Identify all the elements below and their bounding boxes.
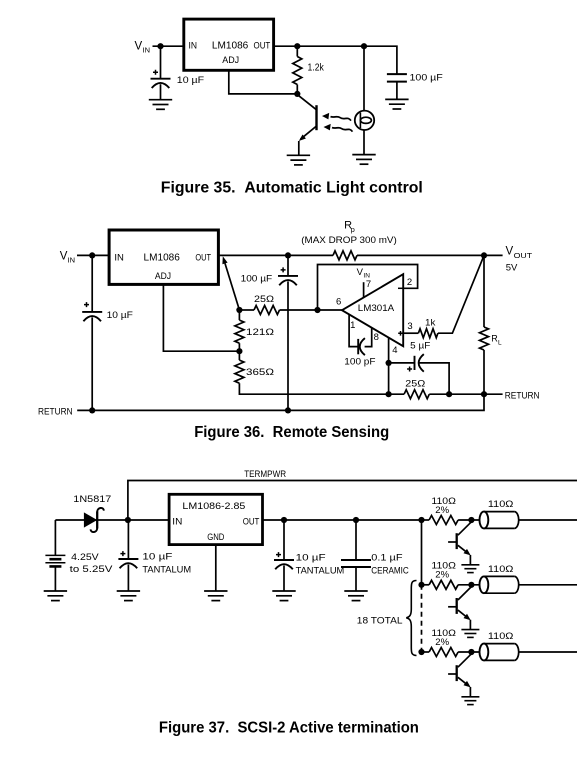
svg-text:TANTALUM: TANTALUM xyxy=(296,565,345,575)
svg-text:IN: IN xyxy=(143,46,151,55)
svg-text:OUT: OUT xyxy=(254,41,271,51)
svg-text:1: 1 xyxy=(350,320,355,331)
svg-text:7: 7 xyxy=(366,279,371,290)
svg-text:IN: IN xyxy=(68,255,76,264)
svg-text:0.1 µF: 0.1 µF xyxy=(371,553,402,564)
svg-text:(MAX DROP 300 mV): (MAX DROP 300 mV) xyxy=(301,235,397,246)
svg-text:OUT: OUT xyxy=(243,516,260,526)
svg-text:1k: 1k xyxy=(425,318,436,329)
svg-text:V: V xyxy=(60,250,68,262)
svg-text:IN: IN xyxy=(114,253,124,264)
svg-text:GND: GND xyxy=(207,532,225,542)
svg-text:10 µF: 10 µF xyxy=(177,75,205,86)
svg-text:100 µF: 100 µF xyxy=(241,274,273,284)
svg-text:LM1086-2.85: LM1086-2.85 xyxy=(182,501,245,512)
svg-text:18 TOTAL: 18 TOTAL xyxy=(357,616,403,626)
svg-text:TANTALUM: TANTALUM xyxy=(142,564,191,574)
svg-text:LM1086: LM1086 xyxy=(212,41,249,52)
svg-text:p: p xyxy=(351,225,355,234)
svg-text:OUT: OUT xyxy=(195,253,211,263)
svg-text:LM1086: LM1086 xyxy=(144,253,181,264)
svg-text:25Ω: 25Ω xyxy=(405,378,425,389)
svg-text:1.2k: 1.2k xyxy=(308,63,325,74)
svg-text:10 µF: 10 µF xyxy=(107,310,134,321)
svg-text:100 pF: 100 pF xyxy=(344,356,375,367)
svg-text:ADJ: ADJ xyxy=(155,271,171,281)
svg-text:Figure 37. SCSI-2 Active term: Figure 37. SCSI-2 Active termination xyxy=(159,720,419,737)
svg-text:CERAMIC: CERAMIC xyxy=(371,565,409,575)
svg-text:LM301A: LM301A xyxy=(358,303,395,313)
svg-text:4.25V: 4.25V xyxy=(71,552,99,563)
svg-text:V: V xyxy=(135,41,143,53)
svg-text:4: 4 xyxy=(392,345,397,356)
svg-text:Figure 36. Remote Sensing: Figure 36. Remote Sensing xyxy=(194,424,389,441)
svg-text:1N5817: 1N5817 xyxy=(73,494,111,505)
svg-text:TERMPWR: TERMPWR xyxy=(244,469,286,480)
svg-text:2: 2 xyxy=(407,277,412,288)
svg-text:10 µF: 10 µF xyxy=(296,553,326,564)
svg-text:ADJ: ADJ xyxy=(222,55,239,65)
svg-text:IN: IN xyxy=(189,41,198,52)
svg-text:Figure 35. Automatic Light co: Figure 35. Automatic Light control xyxy=(161,179,423,196)
svg-text:V: V xyxy=(506,246,514,258)
svg-text:to 5.25V: to 5.25V xyxy=(70,564,113,575)
svg-text:100 µF: 100 µF xyxy=(410,73,444,84)
svg-text:RETURN: RETURN xyxy=(505,390,540,400)
svg-text:10 µF: 10 µF xyxy=(142,552,172,563)
svg-text:5V: 5V xyxy=(506,263,518,274)
svg-text:121Ω: 121Ω xyxy=(246,327,274,338)
svg-text:L: L xyxy=(498,339,502,346)
svg-text:5 µF: 5 µF xyxy=(410,340,430,351)
svg-text:8: 8 xyxy=(374,332,379,343)
svg-text:OUT: OUT xyxy=(514,251,533,260)
svg-text:25Ω: 25Ω xyxy=(254,294,274,305)
svg-text:6: 6 xyxy=(336,296,341,307)
svg-text:RETURN: RETURN xyxy=(38,407,73,417)
svg-text:IN: IN xyxy=(172,516,182,526)
svg-text:3: 3 xyxy=(407,321,412,332)
svg-text:365Ω: 365Ω xyxy=(246,367,274,378)
